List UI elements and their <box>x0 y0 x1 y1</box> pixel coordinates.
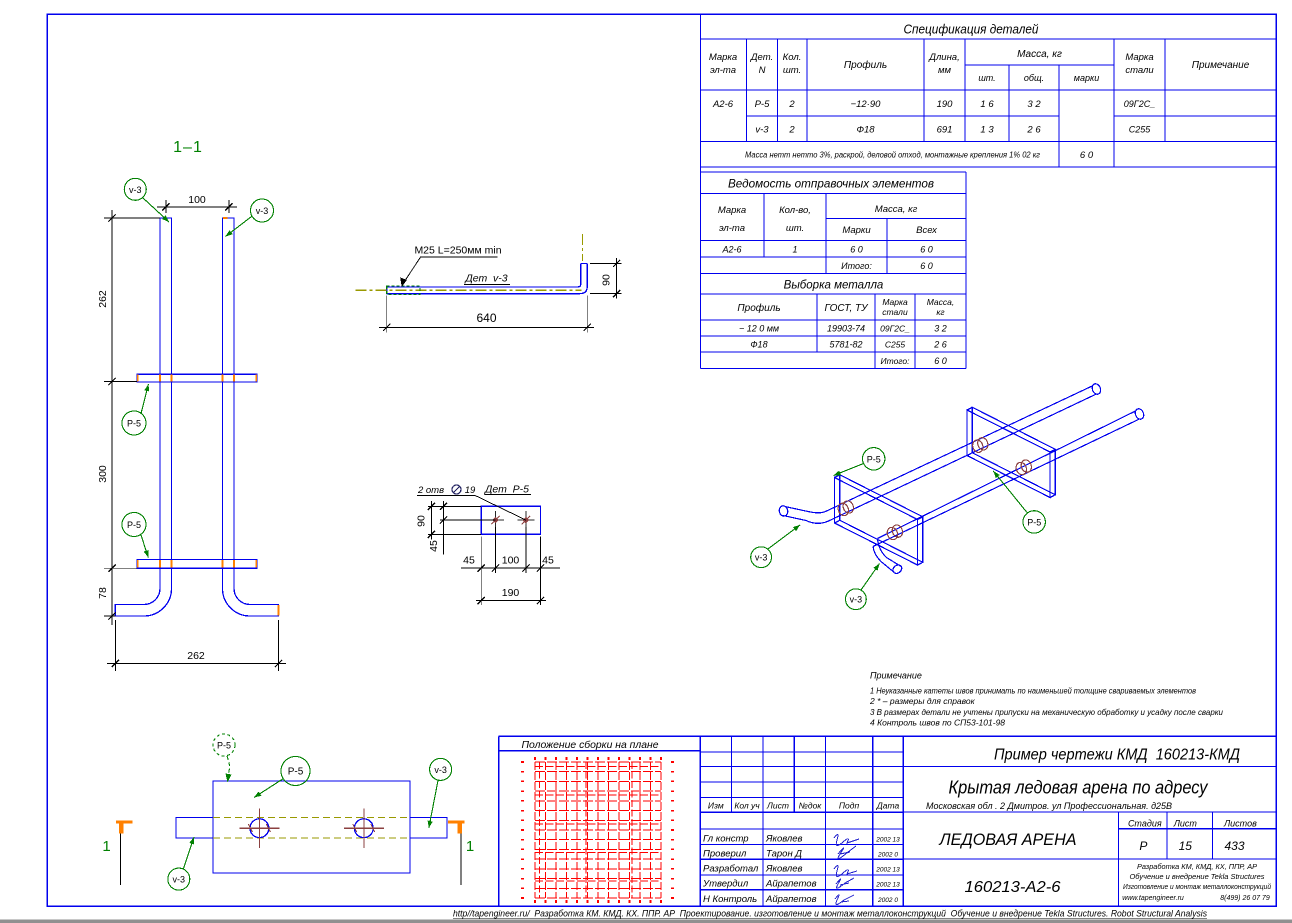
svg-text:Лист: Лист <box>766 801 789 811</box>
svg-text:мм: мм <box>938 65 952 76</box>
svg-text:шт.: шт. <box>783 65 801 76</box>
svg-text:262: 262 <box>97 290 109 308</box>
svg-text:2 отв: 2 отв <box>417 485 444 496</box>
svg-text:2002 13: 2002 13 <box>875 837 900 844</box>
svg-text:90: 90 <box>601 274 613 286</box>
svg-text:Положение сборки на плане: Положение сборки на плане <box>522 739 659 751</box>
svg-text:640: 640 <box>476 311 496 325</box>
svg-text:09Г2С_: 09Г2С_ <box>1124 99 1155 109</box>
svg-text:2: 2 <box>788 125 795 136</box>
svg-text:Листов: Листов <box>1223 818 1257 828</box>
svg-text:2002 13: 2002 13 <box>875 882 900 889</box>
svg-text:45: 45 <box>463 555 475 567</box>
svg-text:19903-74: 19903-74 <box>827 324 865 334</box>
svg-text:Пример чертежи КМД 160213-КМД: Пример чертежи КМД 160213-КМД <box>994 747 1240 764</box>
svg-text:www.tapengineer.ru: www.tapengineer.ru <box>1122 895 1184 902</box>
svg-text:4 Контроль швов по СП53-101-9: 4 Контроль швов по СП53-101-98 <box>870 717 1005 727</box>
svg-text:Р-5: Р-5 <box>755 99 771 110</box>
svg-text:2 6: 2 6 <box>1026 125 1041 136</box>
svg-text:45: 45 <box>542 555 554 567</box>
svg-text:190: 190 <box>937 99 954 110</box>
svg-text:6 0: 6 0 <box>920 245 933 255</box>
svg-text:Масса, кг: Масса, кг <box>1017 49 1062 60</box>
svg-text:Р-5: Р-5 <box>127 520 141 530</box>
svg-text:Длина,: Длина, <box>928 52 959 63</box>
svg-text:Подп: Подп <box>839 801 860 811</box>
svg-text:300: 300 <box>97 465 109 483</box>
svg-text:09Г2С_: 09Г2С_ <box>880 324 910 334</box>
svg-text:2: 2 <box>788 99 795 110</box>
svg-text:Тарон Д: Тарон Д <box>766 849 802 860</box>
svg-text:Разработка КМ, КМД, КХ, ППР, А: Разработка КМ, КМД, КХ, ППР, АР <box>1137 862 1257 871</box>
svg-text:19: 19 <box>465 485 476 496</box>
svg-text:78: 78 <box>97 587 109 599</box>
svg-text:90: 90 <box>416 515 428 527</box>
svg-text:Масса нетт нетто 3%, раскрой,: Масса нетт нетто 3%, раскрой, деловой от… <box>745 151 1040 160</box>
svg-text:Выборка металла: Выборка металла <box>784 280 884 292</box>
svg-text:262: 262 <box>187 650 205 662</box>
svg-text:v-3: v-3 <box>173 875 186 885</box>
svg-text:6 0: 6 0 <box>1080 150 1094 161</box>
svg-text:Дет.: Дет. <box>750 52 773 63</box>
svg-text:Кол.: Кол. <box>783 52 802 63</box>
svg-text:Масса, кг: Масса, кг <box>875 204 918 215</box>
svg-text:2 * – размеры для справок: 2 * – размеры для справок <box>869 696 976 706</box>
svg-text:3 2: 3 2 <box>934 324 947 334</box>
svg-text:3 2: 3 2 <box>1027 99 1041 110</box>
svg-text:1–1: 1–1 <box>173 139 203 156</box>
svg-text:Р-5: Р-5 <box>1027 517 1041 527</box>
svg-text:Московская обл . 2 Дмитров. у: Московская обл . 2 Дмитров. ул Профессио… <box>926 801 1173 812</box>
svg-text:Кол-во,: Кол-во, <box>779 205 811 216</box>
svg-text:Ф18: Ф18 <box>856 125 875 136</box>
svg-text:Обучение и внедрение Tekla St: Обучение и внедрение Tekla Structures <box>1130 872 1265 881</box>
svg-text:15: 15 <box>1179 839 1193 853</box>
svg-text:Изготовление и монтаж металлок: Изготовление и монтаж металлоконструкций <box>1123 882 1271 891</box>
svg-text:Р-5: Р-5 <box>127 419 141 429</box>
svg-text:Крытая ледовая арена по адресу: Крытая ледовая арена по адресу <box>949 778 1209 798</box>
svg-text:v-3: v-3 <box>256 206 269 216</box>
svg-text:Лист: Лист <box>1173 818 1198 828</box>
svg-text:3 В размерах детали не учтены: 3 В размерах детали не учтены припуски н… <box>870 707 1223 717</box>
svg-text:Айрапетов: Айрапетов <box>765 879 817 890</box>
svg-text:2 6: 2 6 <box>933 340 947 350</box>
svg-text:N: N <box>759 65 766 76</box>
svg-text:Марка: Марка <box>882 297 908 307</box>
svg-text:С255: С255 <box>885 340 906 350</box>
svg-text:марки: марки <box>1074 73 1099 83</box>
svg-text:Айрапетов: Айрапетов <box>765 894 817 905</box>
svg-text:1: 1 <box>466 838 474 855</box>
svg-text:1 3: 1 3 <box>980 125 994 136</box>
svg-text:Ф18: Ф18 <box>750 340 767 350</box>
svg-text:v-3: v-3 <box>434 765 447 775</box>
svg-text:100: 100 <box>502 555 520 567</box>
svg-text:1 6: 1 6 <box>980 99 994 110</box>
svg-text:2002 0: 2002 0 <box>877 852 898 859</box>
svg-text:− 12 0 мм: − 12 0 мм <box>739 324 779 334</box>
svg-text:Кол уч: Кол уч <box>734 801 760 811</box>
svg-text:Р: Р <box>1139 839 1147 853</box>
svg-text:Р-5: Р-5 <box>288 767 304 778</box>
svg-text:v-3: v-3 <box>755 553 768 563</box>
svg-text:Всех: Всех <box>916 225 938 236</box>
svg-text:шт.: шт. <box>978 73 995 83</box>
svg-text:эл-та: эл-та <box>710 65 736 76</box>
svg-text:шт.: шт. <box>786 223 804 234</box>
svg-text:Марка: Марка <box>1125 52 1153 63</box>
svg-text:Проверил: Проверил <box>703 849 747 860</box>
svg-text:Яковлев: Яковлев <box>765 864 803 875</box>
svg-text:Р-5: Р-5 <box>867 454 881 464</box>
svg-text:Спецификация деталей: Спецификация деталей <box>904 22 1039 37</box>
svg-text:2002 0: 2002 0 <box>877 897 898 904</box>
svg-text:ГОСТ, ТУ: ГОСТ, ТУ <box>824 303 869 314</box>
svg-text:Примечание: Примечание <box>870 670 922 680</box>
svg-text:v-3: v-3 <box>129 185 142 195</box>
svg-text:−12·90: −12·90 <box>851 99 882 110</box>
svg-text:M25 L=250мм min: M25 L=250мм min <box>414 245 501 257</box>
svg-text:Яковлев: Яковлев <box>765 834 803 845</box>
svg-text:Марка: Марка <box>709 52 737 63</box>
svg-text:С255: С255 <box>1129 125 1152 135</box>
svg-text:Итого:: Итого: <box>881 356 911 366</box>
svg-text:стали: стали <box>1125 65 1154 76</box>
svg-text:Р-5: Р-5 <box>217 741 231 751</box>
svg-text:Стадия: Стадия <box>1128 818 1162 828</box>
svg-text:8(499) 26 07 79: 8(499) 26 07 79 <box>1220 895 1270 902</box>
svg-text:5781-82: 5781-82 <box>829 340 862 350</box>
svg-text:А2-6: А2-6 <box>721 245 741 255</box>
svg-text:Итого:: Итого: <box>841 261 872 271</box>
svg-text:190: 190 <box>502 587 520 599</box>
svg-text:v-3: v-3 <box>850 595 863 605</box>
svg-text:Марка: Марка <box>718 205 746 216</box>
svg-text:Разработал: Разработал <box>703 864 759 875</box>
svg-text:v-3: v-3 <box>755 125 769 136</box>
svg-text:Примечание: Примечание <box>1192 60 1250 71</box>
svg-text:1 Неуказанные катеты швов при: 1 Неуказанные катеты швов принимать по н… <box>870 685 1196 695</box>
svg-text:кг: кг <box>936 307 944 317</box>
svg-text:1: 1 <box>792 245 797 255</box>
svg-text:Изм: Изм <box>708 801 724 811</box>
svg-text:ЛЕДОВАЯ АРЕНА: ЛЕДОВАЯ АРЕНА <box>939 830 1077 849</box>
svg-text:общ.: общ. <box>1024 73 1044 83</box>
svg-text:http//tapengineer.ru/ Разрабо: http//tapengineer.ru/ Разработка КМ. КМД… <box>453 909 1207 920</box>
svg-text:2002 13: 2002 13 <box>875 867 900 874</box>
svg-text:Ведомость отправочных элементо: Ведомость отправочных элементов <box>728 177 934 191</box>
svg-text:1: 1 <box>102 838 110 855</box>
svg-text:Дата: Дата <box>876 801 900 811</box>
svg-text:стали: стали <box>882 307 908 317</box>
svg-text:6 0: 6 0 <box>920 261 933 271</box>
svg-text:эл-та: эл-та <box>719 223 745 234</box>
svg-text:№док: №док <box>799 801 823 811</box>
svg-text:Профиль: Профиль <box>737 302 780 314</box>
svg-text:Дет v-3: Дет v-3 <box>464 273 507 285</box>
svg-text:Дет Р-5: Дет Р-5 <box>484 484 529 496</box>
svg-text:691: 691 <box>937 125 953 136</box>
svg-text:Профиль: Профиль <box>844 59 887 71</box>
svg-text:6 0: 6 0 <box>934 356 947 366</box>
svg-text:433: 433 <box>1224 839 1244 853</box>
svg-text:А2-6: А2-6 <box>712 99 734 110</box>
svg-text:Марки: Марки <box>842 225 871 236</box>
svg-text:160213-А2-6: 160213-А2-6 <box>965 879 1061 896</box>
svg-text:45: 45 <box>428 540 440 552</box>
svg-text:6 0: 6 0 <box>850 245 863 255</box>
svg-text:Масса,: Масса, <box>927 297 955 307</box>
svg-text:Н Контроль: Н Контроль <box>703 894 757 905</box>
svg-text:100: 100 <box>188 194 206 206</box>
svg-text:Гл констр: Гл констр <box>703 834 749 845</box>
svg-text:Утвердил: Утвердил <box>702 879 749 890</box>
